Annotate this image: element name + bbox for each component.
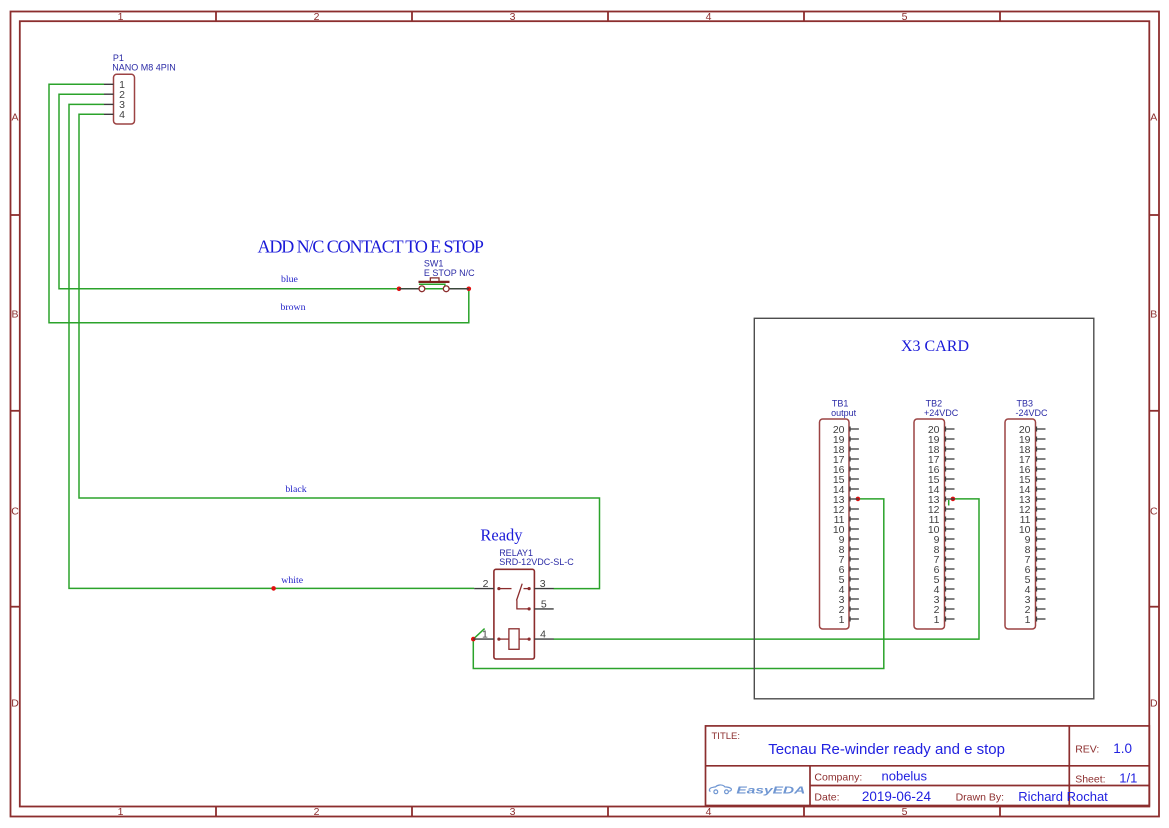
svg-text:-24VDC: -24VDC (1016, 408, 1049, 418)
svg-text:2: 2 (314, 11, 320, 23)
svg-text:C: C (11, 505, 19, 517)
svg-text:EasyEDA: EasyEDA (736, 784, 805, 796)
junction dot blue net left of SW1 (397, 287, 402, 292)
svg-text:Tecnau Re-winder ready and e s: Tecnau Re-winder ready and e stop (768, 741, 1005, 758)
svg-text:TB1: TB1 (832, 398, 849, 408)
svg-text:1/1: 1/1 (1119, 771, 1137, 786)
svg-text:white: white (281, 575, 303, 586)
svg-text:blue: blue (281, 274, 299, 285)
wire blue net: P1 pin2 to SW1 left (59, 94, 399, 289)
svg-text:4: 4 (119, 109, 125, 121)
svg-text:5: 5 (541, 598, 547, 610)
svg-text:black: black (285, 484, 306, 495)
junction dot right of SW1 (467, 287, 472, 292)
title block (706, 726, 1150, 806)
svg-text:2: 2 (314, 806, 320, 818)
X3 CARD box (754, 318, 1094, 699)
svg-text:1: 1 (934, 614, 940, 626)
svg-text:E STOP N/C: E STOP N/C (424, 268, 475, 278)
svg-text:A: A (1150, 112, 1157, 124)
junction dot RELAY1 pin1 (471, 637, 476, 642)
svg-text:1: 1 (118, 11, 124, 23)
svg-text:Company:: Company: (814, 772, 862, 784)
junction dot TB1 pin13 (856, 497, 861, 502)
svg-text:D: D (11, 698, 19, 710)
terminal block TB2 (914, 419, 955, 629)
wire brown net: P1 pin1 to SW1 right (49, 84, 469, 322)
svg-text:Ready: Ready (480, 526, 523, 545)
svg-text:3: 3 (540, 578, 546, 590)
svg-text:TB2: TB2 (926, 398, 943, 408)
EasyEDA logo (709, 785, 731, 794)
svg-text:2019-06-24: 2019-06-24 (862, 789, 932, 804)
svg-text:4: 4 (706, 11, 712, 23)
junction dot TB2 pin13 (951, 497, 956, 502)
svg-text:3: 3 (510, 11, 516, 23)
svg-text:nobelus: nobelus (882, 768, 928, 783)
svg-text:4: 4 (706, 806, 712, 818)
svg-text:1: 1 (482, 629, 488, 641)
connector P1 (104, 74, 135, 124)
svg-text:Date:: Date: (814, 791, 839, 803)
svg-text:D: D (1150, 698, 1158, 710)
switch SW1 E STOP N/C (399, 278, 469, 292)
wire blue net under SW1 contacts (399, 284, 469, 289)
svg-text:4: 4 (540, 629, 546, 641)
svg-text:5: 5 (902, 11, 908, 23)
svg-text:output: output (831, 408, 857, 418)
svg-text:1.0: 1.0 (1113, 741, 1132, 756)
svg-text:B: B (11, 308, 18, 320)
svg-text:SRD-12VDC-SL-C: SRD-12VDC-SL-C (499, 557, 574, 567)
svg-text:TITLE:: TITLE: (712, 731, 741, 742)
svg-text:2: 2 (483, 578, 489, 590)
relay RELAY1 (473, 569, 553, 659)
wire RELAY1 pin1 to TB1 pin13 (473, 499, 884, 669)
junction dot white net (271, 586, 276, 591)
svg-text:TB3: TB3 (1017, 398, 1034, 408)
wire RELAY1 pin4 to TB2 pin13 (554, 499, 980, 639)
svg-text:+24VDC: +24VDC (924, 408, 959, 418)
svg-text:1: 1 (118, 806, 124, 818)
svg-text:3: 3 (510, 806, 516, 818)
svg-text:5: 5 (902, 806, 908, 818)
svg-text:REV:: REV: (1075, 744, 1099, 756)
svg-text:B: B (1150, 308, 1157, 320)
svg-text:Drawn By:: Drawn By: (956, 791, 1004, 803)
terminal block TB3 (1005, 419, 1046, 629)
svg-text:NANO M8 4PIN: NANO M8 4PIN (112, 62, 176, 72)
svg-text:SW1: SW1 (424, 258, 444, 268)
svg-text:ADD N/C CONTACT TO E STOP: ADD N/C CONTACT TO E STOP (258, 237, 484, 257)
svg-text:X3 CARD: X3 CARD (901, 338, 969, 355)
wire black net: P1 pin4 to RELAY1 pin3 (79, 114, 600, 588)
svg-text:1: 1 (839, 614, 845, 626)
svg-text:brown: brown (281, 302, 306, 313)
svg-text:A: A (11, 112, 18, 124)
svg-text:Sheet:: Sheet: (1075, 774, 1105, 786)
svg-text:C: C (1150, 505, 1158, 517)
wire white net: P1 pin3 to RELAY1 pin2 (69, 104, 474, 588)
svg-text:Richard Rochat: Richard Rochat (1018, 789, 1108, 804)
terminal block TB1 (820, 419, 859, 629)
svg-text:1: 1 (1025, 614, 1031, 626)
